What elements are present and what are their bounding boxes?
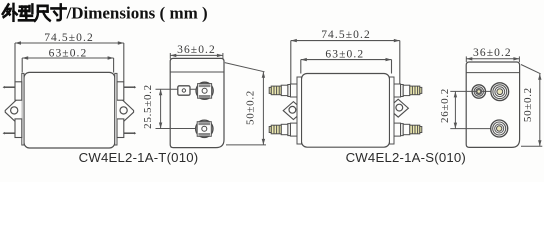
right hole (120, 107, 127, 114)
screw terminal upper-right v3 (394, 84, 422, 97)
dim 50 view2 (225, 63, 266, 145)
dim 74.5 line v3 (291, 39, 400, 84)
pin upper-right (124, 86, 134, 88)
terminal block lower-left (15, 119, 22, 138)
left hole (11, 107, 18, 114)
screw small top-left view4 (472, 85, 485, 98)
svg-text:/Dimensions ( mm ): /Dimensions ( mm ) (66, 3, 208, 22)
right end plate v3 (390, 77, 395, 144)
svg-text:36±0.2: 36±0.2 (177, 44, 216, 56)
body view1 (24, 72, 115, 148)
svg-text:63±0.2: 63±0.2 (49, 48, 88, 60)
svg-text:63±0.2: 63±0.2 (325, 48, 364, 60)
svg-text:CW4EL2-1A-T(010): CW4EL2-1A-T(010) (79, 150, 199, 165)
screw bottom view4 (491, 120, 508, 137)
screw big top-right view4 (491, 83, 509, 101)
svg-text:25.5±0.2: 25.5±0.2 (142, 84, 154, 129)
left ear (5, 100, 22, 123)
char 尺 (38, 6, 48, 12)
pin lower-right (124, 132, 134, 134)
dim 50 view4 (521, 65, 542, 147)
screw top view2 (196, 82, 213, 99)
fast-on terminal square view2 (178, 86, 190, 95)
screw terminal lower-left v3 (269, 123, 297, 136)
svg-text:74.5±0.2: 74.5±0.2 (321, 29, 371, 41)
char 型 (20, 5, 28, 8)
char 外 (3, 5, 9, 14)
svg-text:26±0.2: 26±0.2 (439, 88, 451, 123)
terminal block lower-right (117, 119, 124, 138)
box view2 (170, 58, 224, 147)
right ear (117, 100, 134, 123)
dim 25.5 view2 (156, 89, 197, 128)
svg-text:36±0.2: 36±0.2 (473, 47, 512, 59)
svg-text:CW4EL2-1A-S(010): CW4EL2-1A-S(010) (346, 150, 466, 165)
pin upper-left (5, 86, 15, 88)
svg-text:50±0.2: 50±0.2 (245, 90, 257, 125)
screw terminal lower-right v3 (394, 123, 422, 136)
left end plate (22, 73, 24, 145)
right end plate (115, 73, 117, 145)
dim 36 view4 (466, 56, 519, 62)
left end plate v3 (297, 77, 302, 144)
dim 26 view4 (450, 91, 491, 128)
terminal block upper-right (117, 82, 124, 100)
svg-text:74.5±0.2: 74.5±0.2 (44, 32, 94, 44)
box view4 (466, 62, 519, 147)
dim 36 view2 (170, 53, 223, 59)
dim 63 line (22, 56, 113, 72)
lid seam v4 (466, 72, 519, 74)
dim 74.5 line (15, 41, 124, 81)
screw bottom view2 (196, 120, 213, 137)
title: hand-drawn CJK 外型尺寸 (3, 4, 66, 21)
right ear diamond v3 (388, 99, 408, 117)
terminal block upper-left (15, 82, 22, 100)
body view3 (302, 74, 390, 148)
svg-text:50±0.2: 50±0.2 (522, 87, 534, 122)
dim 63 line v3 (301, 58, 392, 74)
char 寸 (51, 7, 65, 10)
screw terminal upper-left v3 (269, 84, 297, 97)
right hole v3 (396, 104, 403, 111)
left hole v3 (289, 106, 296, 113)
lid seam (170, 71, 224, 73)
left ear diamond v3 (283, 102, 303, 120)
pin lower-left (5, 132, 15, 134)
